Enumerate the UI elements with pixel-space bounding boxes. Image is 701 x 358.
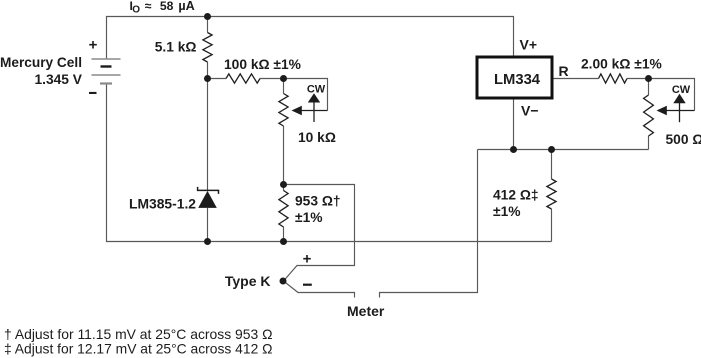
svg-text:CW: CW [307, 84, 326, 96]
svg-text:±1%: ±1% [295, 210, 323, 225]
wire meter right terminal to V- rail [380, 150, 478, 298]
resistor R4 953 Ohm [279, 191, 288, 228]
svg-text:+: + [303, 250, 312, 267]
node thermocouple junction [280, 278, 287, 285]
wire 412 leads [551, 150, 553, 242]
svg-text:CW: CW [672, 84, 691, 96]
svg-text:V−: V− [521, 103, 539, 119]
potentiometer R3 wiper arrow [292, 106, 328, 115]
resistor R5 412 Ohm [547, 179, 556, 209]
svg-text:+: + [89, 37, 98, 54]
potentiometer R7 wiper arrow [657, 106, 695, 115]
node diode/bottom-rail [204, 238, 211, 245]
svg-text:10 kΩ: 10 kΩ [298, 130, 336, 145]
svg-text:1.345 V: 1.345 V [35, 72, 83, 87]
resistor R1 5.1 kOhm [203, 33, 212, 63]
svg-text:Mercury Cell: Mercury Cell [0, 55, 82, 70]
zener diode U2 LM385-1.2 [198, 187, 219, 208]
wire 10k pot leads [283, 79, 285, 185]
wire LM334 V- pin [513, 100, 515, 150]
battery B1 Mercury Cell plates [92, 59, 121, 84]
svg-text:Type K: Type K [225, 273, 271, 289]
node 953/bottom-rail [280, 238, 287, 245]
resistor R2 100 kOhm [226, 74, 260, 83]
potentiometer R3 10 kOhm body [279, 94, 288, 127]
node 5.1k/100k/diode [204, 75, 211, 82]
wire 5.1k leads [207, 16, 209, 78]
wire 10k pot top + wiper feed [284, 79, 328, 111]
svg-text:‡ Adjust for 12.17 mV at 25°C: ‡ Adjust for 12.17 mV at 25°C across 412… [4, 342, 273, 357]
svg-text:2.00 kΩ ±1%: 2.00 kΩ ±1% [581, 57, 662, 72]
node V-/412 [548, 146, 555, 153]
CW arrow for 10k pot [308, 93, 320, 122]
svg-text:R: R [559, 63, 569, 79]
CW arrow for 500 pot [673, 94, 685, 122]
wire battery- to bottom rail to 412 ohm bottom [107, 84, 552, 242]
wire 100k leads [208, 78, 284, 80]
resistor R6 2.00 kOhm [599, 74, 628, 83]
wire top rail from battery+ to LM334 V+ [107, 17, 514, 60]
node V-/meter [510, 146, 517, 153]
svg-text:LM334: LM334 [494, 72, 541, 88]
op-amp U1 LM334 box [477, 57, 552, 98]
thermocouple minus sign [303, 284, 312, 286]
svg-text:5.1 kΩ: 5.1 kΩ [155, 39, 197, 54]
wire diode leads [207, 78, 209, 242]
wire thermocouple minus lead to meter left terminal [284, 281, 355, 298]
wire 953 leads [283, 185, 285, 242]
svg-text:±1%: ±1% [493, 204, 521, 219]
node 2k/500-pot [645, 75, 652, 82]
svg-text:LM385-1.2: LM385-1.2 [129, 197, 196, 212]
svg-text:500 Ω: 500 Ω [666, 132, 701, 147]
svg-text:100 kΩ ±1%: 100 kΩ ±1% [224, 57, 301, 72]
wire V- rail [478, 149, 649, 151]
wire node 953-top to thermocouple plus lead [284, 185, 355, 282]
node 100k/10k-pot [280, 75, 287, 82]
wire LM334 R pin to 2k [554, 78, 599, 80]
wire 2k to node to 500 pot wiper feed [627, 79, 695, 111]
potentiometer R7 500 Ohm body [644, 95, 654, 136]
svg-text:Meter: Meter [347, 303, 385, 319]
svg-text:412 Ω‡: 412 Ω‡ [493, 188, 539, 203]
svg-text:† Adjust for 11.15 mV at 25°C: † Adjust for 11.15 mV at 25°C across 953… [4, 327, 273, 342]
node 10k-pot/953/TC+ [280, 181, 287, 188]
node top-rail/5.1k [204, 13, 211, 20]
svg-text:V+: V+ [520, 37, 538, 53]
wire 500 pot leads [648, 79, 650, 150]
svg-text:953 Ω†: 953 Ω† [295, 194, 341, 209]
battery minus sign [89, 92, 97, 94]
